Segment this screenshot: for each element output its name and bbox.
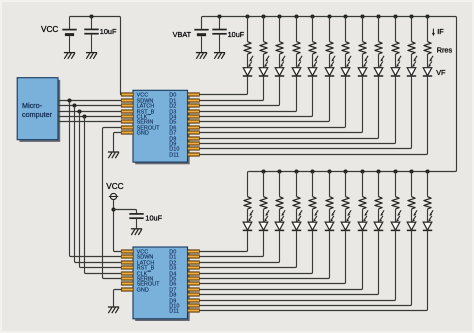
LED11 (bank1) [407,68,416,76]
wire rail2 to R17 [312,172,314,197]
svg-text:10uF: 10uF [145,213,162,222]
LED D10 bank1 emission arrow [415,56,418,60]
pin IC2 CLK [121,272,133,275]
wire R7 to LED7 [345,54,347,68]
capacitor C1 10uF (VCC) [91,17,93,30]
LED5 (bank1) [308,68,317,76]
wire rail1 to R4 [296,17,298,42]
wire rail1 to R6 [329,17,331,42]
resistor R23 (bank2) [408,197,415,210]
LED D2 bank1 emission arrow [283,56,286,60]
resistor R3 (bank1) [276,42,283,55]
capacitor C3 10uF (IC2 supply) [129,213,143,215]
pin IC1 D11 [188,153,200,156]
node: VCC-capacitor junction [89,14,93,18]
wire LED18 cathode to IC2 D5 [199,230,329,278]
wire R14 to LED14 [263,209,265,222]
node: rail2 junction col3 [277,169,281,173]
wire SDWN bus to IC2 [70,101,122,257]
wire micro-computer to IC1 SDWN [58,100,122,102]
LED2 (bank1) [259,68,268,76]
wire LED12 cathode to IC1 D11 [199,76,427,155]
wire R9 to LED9 [378,54,380,68]
wire LATCH bus to IC2 [75,106,122,263]
resistor R7 (bank1) [342,42,349,55]
wire rail1 to R2 [263,17,265,42]
node: rail1 junction col11 [409,14,413,18]
resistor R12 (bank1) [424,42,431,55]
LED13 (bank2) [243,222,252,230]
wire LED20 cathode to IC2 D7 [199,230,362,289]
pin IC2 D11 [188,309,200,312]
resistor R9 (bank1) [375,42,382,55]
pin IC1 GND [121,131,133,134]
LED D2 bank2 emission arrow [283,210,286,214]
pin IC1 RST_B [121,110,133,113]
pin IC1 D1 [188,99,200,102]
LED D7 bank1 emission arrow [366,56,369,60]
LED D1 bank1 emission arrow [267,56,270,60]
node: CLK bus junction [82,114,86,118]
LED D3 bank1 emission arrow [300,56,303,60]
svg-text:10uF: 10uF [100,27,117,36]
wire LED22 cathode to IC2 D9 [199,230,395,300]
resistor R2 (bank1) [260,42,267,55]
node: rail1 junction col7 [343,14,347,18]
svg-text:IF: IF [437,27,444,36]
pin IC1 D5 [188,120,200,123]
LED9 (bank1) [374,68,383,76]
wire R6 to LED6 [329,54,331,68]
ground for IC1 GND [108,151,119,153]
wire R1 to LED1 [247,54,249,68]
LED12 (bank1) [423,68,432,76]
ground under C1 [86,52,97,54]
node: rail1 junction col3 [277,14,281,18]
node: SDWN bus junction [67,98,71,102]
wire rail1 to R7 [345,17,347,42]
node: rail2 junction col9 [376,169,380,173]
node: LATCH bus junction [72,103,76,107]
LED D5 bank1 emission arrow [333,56,336,60]
wire LED10 cathode to IC1 D9 [199,76,395,144]
pin IC1 D10 [188,147,200,150]
LED17 (bank2) [308,222,317,230]
wire LED11 cathode to IC1 D10 [199,76,411,149]
LED D0 bank2 emission arrow [251,210,254,214]
pin IC2 GND [121,288,133,291]
LED D3 bank2 emission arrow [300,210,303,214]
LED16 (bank2) [292,222,301,230]
LED D4 bank2 emission arrow [316,210,319,214]
resistor R20 (bank2) [359,197,366,210]
pin IC2 D7 [188,288,200,291]
wire rail1 to R11 [411,17,413,42]
node: rail2 junction col12 [425,169,429,173]
wire LED16 cathode to IC2 D3 [199,230,296,267]
micro-computer block U1 [19,80,60,142]
resistor R4 (bank1) [293,42,300,55]
pin IC2 D4 [188,272,200,275]
LED driver IC1 [135,93,190,165]
wire rail2 to R19 [345,172,347,197]
wire R5 to LED5 [312,54,314,68]
wire rail2 to R14 [263,172,265,197]
pin IC1 D9 [188,142,200,145]
pin IC1 D8 [188,137,200,140]
LED D6 bank1 emission arrow [349,56,352,60]
svg-text:10uF: 10uF [228,30,245,39]
wire rail2 to R24 [427,172,429,197]
wire micro-computer to IC1 SERIN [58,121,122,123]
resistor R1 (bank1) [244,42,251,55]
pin IC1 D2 [188,104,200,107]
resistor R24 (bank2) [424,197,431,210]
wire R24 to LED24 [427,209,429,222]
LED D8 bank2 emission arrow [382,210,385,214]
wire R17 to LED17 [312,209,314,222]
node: rail2 junction col8 [360,169,364,173]
wire R2 to LED2 [263,54,265,68]
resistor R8 (bank1) [359,42,366,55]
LED6 (bank1) [325,68,334,76]
LED driver IC2 [135,249,190,321]
LED18 (bank2) [325,222,334,230]
LED19 (bank2) [341,222,350,230]
wire LED5 cathode to IC1 D4 [199,76,312,117]
svg-text:D11: D11 [169,153,179,159]
wire rail2 to R20 [362,172,364,197]
node: rail2 junction col11 [409,169,413,173]
wire rail1 to R3 [279,17,281,42]
wire LED19 cathode to IC2 D6 [199,230,345,283]
wire R12 to LED12 [427,54,429,68]
wire R15 to LED15 [279,209,281,222]
wire R16 to LED16 [296,209,298,222]
wire CLK bus to IC2 [85,117,122,274]
wire micro-computer to IC1 RST_B [58,111,122,113]
resistor R5 (bank1) [309,42,316,55]
battery VCC (top-left) [69,17,71,30]
LED21 (bank2) [374,222,383,230]
wire rail1 to R1 [247,17,249,42]
svg-text:Rres: Rres [437,46,453,55]
pin IC1 D3 [188,110,200,113]
resistor R18 (bank2) [326,197,333,210]
wire rail1 to R9 [378,17,380,42]
svg-text:computer: computer [22,110,53,119]
pin IC2 SDWN [121,255,133,258]
svg-text:VF: VF [436,68,446,77]
wire LED21 cathode to IC2 D8 [199,230,378,294]
resistor R10 (bank1) [392,42,399,55]
pin IC2 D6 [188,282,200,285]
pin IC1 LATCH [121,104,133,107]
resistor R19 (bank2) [342,197,349,210]
node: rail2 junction col10 [393,169,397,173]
LED1 (bank1) [243,68,252,76]
wire rail1 to R5 [312,17,314,42]
LED D4 bank1 emission arrow [316,56,319,60]
wire IC2 GND to ground [114,290,122,307]
node: rail1 junction col8 [360,14,364,18]
pin IC2 D5 [188,277,200,280]
wire R8 to LED8 [362,54,364,68]
node: rail2 junction col6 [327,169,331,173]
node: rail2 junction col5 [310,169,314,173]
wire micro-computer to IC1 LATCH [58,105,122,107]
svg-text:VCC: VCC [41,25,58,34]
LED10 (bank1) [391,68,400,76]
LED24 (bank2) [423,222,432,230]
node: rail1 junction col12 [425,14,429,18]
node: rail2 junction col7 [343,169,347,173]
ground under C2 [214,52,225,54]
wire rail2 to R16 [296,172,298,197]
wire rail2 to R15 [279,172,281,197]
svg-text:GND: GND [137,131,149,137]
pin IC2 D2 [188,261,200,264]
LED D7 bank2 emission arrow [366,210,369,214]
pin IC2 D8 [188,293,200,296]
wire RST_B bus to IC2 [80,112,122,268]
wire R13 to LED13 [247,209,249,222]
node: rail1 junction col5 [310,14,314,18]
pin IC1 D4 [188,115,200,118]
wire LED17 cathode to IC2 D4 [199,230,312,273]
pin IC1 D7 [188,131,200,134]
pin IC2 RST_B [121,266,133,269]
LED D9 bank2 emission arrow [399,210,402,214]
node: RST_B bus junction [77,109,81,113]
pin IC2 D1 [188,255,200,258]
svg-text:D11: D11 [169,309,179,315]
node: VBAT-capacitor junction [217,14,221,18]
LED D9 bank1 emission arrow [399,56,402,60]
resistor R13 (bank2) [244,197,251,210]
pin IC2 D9 [188,299,200,302]
LED3 (bank1) [275,68,284,76]
LED8 (bank1) [358,68,367,76]
wire LED4 cathode to IC1 D3 [199,76,296,112]
LED D6 bank2 emission arrow [349,210,352,214]
LED23 (bank2) [407,222,416,230]
LED D11 bank1 emission arrow [431,56,434,60]
wire rail2 to R21 [378,172,380,197]
resistor R11 (bank1) [408,42,415,55]
LED D11 bank2 emission arrow [431,210,434,214]
pin IC1 SEROUT [121,126,133,129]
resistor R14 (bank2) [260,197,267,210]
pin IC1 D6 [188,126,200,129]
node: rail1 junction col6 [327,14,331,18]
resistor R15 (bank2) [276,197,283,210]
capacitor C2 10uF (VBAT) [219,17,221,30]
pin IC2 VCC [121,250,133,253]
resistor R21 (bank2) [375,197,382,210]
pin IC2 D3 [188,266,200,269]
wire LED23 cathode to IC2 D10 [199,230,411,305]
ground under C3 [131,228,142,230]
wire R21 to LED21 [378,209,380,222]
node: rail1 junction col4 [294,14,298,18]
pin IC2 LATCH [121,261,133,264]
pin IC1 D0 [188,93,200,96]
wire rail1 to R12 [427,17,429,42]
pin IC1 CLK [121,115,133,118]
wire LED3 cathode to IC1 D2 [199,76,279,106]
wire R11 to LED11 [411,54,413,68]
wire rail2 to R18 [329,172,331,197]
wire LED1 cathode to IC1 D0 [199,76,247,95]
node: rail1 junction col1 [245,14,249,18]
label IF with down arrow [432,29,434,35]
LED20 (bank2) [358,222,367,230]
node: rail1 junction col9 [376,14,380,18]
wire LED9 cathode to IC1 D8 [199,76,378,139]
wire R4 to LED4 [296,54,298,68]
svg-text:Micro-: Micro- [22,101,43,110]
ground under VBAT battery [196,52,207,54]
wire LED2 cathode to IC1 D1 [199,76,263,101]
node: rail1 junction col2 [261,14,265,18]
LED4 (bank1) [292,68,301,76]
svg-text:GND: GND [137,288,149,294]
wire rail1 to R10 [395,17,397,42]
wire junction to C3 [114,210,137,214]
svg-text:VCC: VCC [106,182,123,191]
wire rail2 to R22 [395,172,397,197]
wire rail2 corner to R13 [248,172,249,197]
wire LED7 cathode to IC1 D6 [199,76,345,128]
wire R23 to LED23 [411,209,413,222]
ground under VCC battery [64,52,75,54]
ground for IC2 GND [108,306,119,308]
wire rail2 to R23 [411,172,413,197]
node: rail2 junction col2 [261,169,265,173]
resistor R6 (bank1) [326,42,333,55]
pin IC2 SEROUT [121,282,133,285]
resistor R17 (bank2) [309,197,316,210]
LED15 (bank2) [275,222,284,230]
battery VBAT [194,29,208,31]
wire R20 to LED20 [362,209,364,222]
resistor R22 (bank2) [392,197,399,210]
LED D5 bank2 emission arrow [333,210,336,214]
wire VCC terminal to IC2 VCC pin [114,200,122,252]
svg-text:VBAT: VBAT [173,30,192,39]
wire LED15 cathode to IC2 D2 [199,230,279,262]
wire LED24 cathode to IC2 D11 [199,230,427,310]
node: rail2 junction col4 [294,169,298,173]
LED D1 bank2 emission arrow [267,210,270,214]
resistor R16 (bank2) [293,197,300,210]
pin IC2 D0 [188,250,200,253]
pin IC1 VCC [121,93,133,96]
VCC terminal (IC2 supply) [110,193,116,199]
wire IC1 SEROUT to IC2 SERIN (daisy chain) [103,128,122,279]
wire IC1 GND to ground [114,133,122,152]
node: rail1 junction col10 [393,14,397,18]
wire rail1 to R8 [362,17,364,42]
LED14 (bank2) [259,222,268,230]
pin IC2 SERIN [121,277,133,280]
wire LED14 cathode to IC2 D1 [199,230,263,256]
wire R22 to LED22 [395,209,397,222]
node: VCC2-capacitor junction [111,207,115,211]
pin IC1 SDWN [121,99,133,102]
wire LED6 cathode to IC1 D5 [199,76,329,122]
wire VBAT rail (top) [202,17,457,172]
LED D10 bank2 emission arrow [415,210,418,214]
LED7 (bank1) [341,68,350,76]
wire LED13 cathode to IC2 D0 [199,230,247,251]
wire R10 to LED10 [395,54,397,68]
wire micro-computer to IC1 CLK [58,116,122,118]
LED22 (bank2) [391,222,400,230]
wire R3 to LED3 [279,54,281,68]
LED D0 bank1 emission arrow [251,56,254,60]
wire R19 to LED19 [345,209,347,222]
wire R18 to LED18 [329,209,331,222]
pin IC1 SERIN [121,120,133,123]
wire VCC rail to IC1 VCC pin [70,17,122,95]
wire LED8 cathode to IC1 D7 [199,76,362,133]
pin IC2 D10 [188,304,200,307]
LED D8 bank1 emission arrow [382,56,385,60]
